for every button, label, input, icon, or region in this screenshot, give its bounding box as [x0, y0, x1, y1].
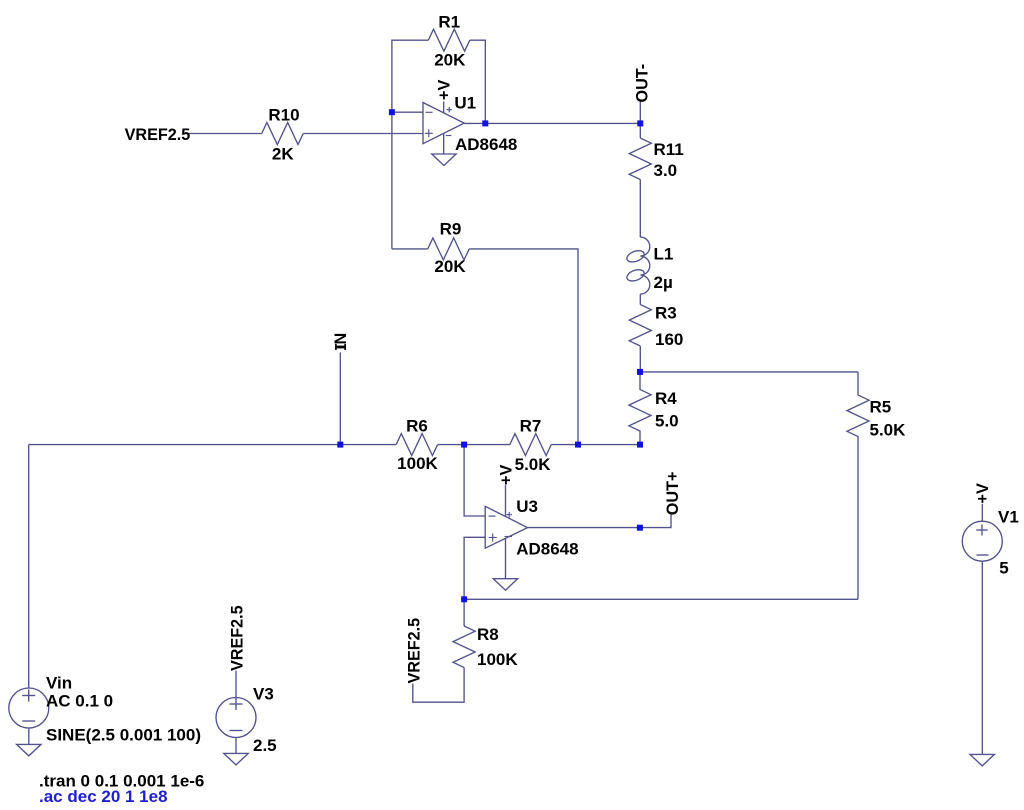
svg-text:5.0: 5.0 [655, 411, 679, 430]
svg-text:R10: R10 [268, 105, 299, 124]
svg-text:+V: +V [974, 483, 992, 503]
svg-text:R8: R8 [477, 625, 499, 644]
svg-text:OUT+: OUT+ [664, 472, 682, 516]
svg-text:2.5: 2.5 [253, 736, 277, 755]
svg-text:5.0K: 5.0K [870, 421, 907, 440]
svg-text:160: 160 [655, 330, 683, 349]
svg-text:R9: R9 [440, 220, 462, 239]
svg-text:AC 0.1 0: AC 0.1 0 [46, 692, 113, 711]
svg-text:2µ: 2µ [654, 273, 673, 292]
svg-text:N: N [332, 333, 350, 345]
svg-text:R7: R7 [520, 417, 542, 436]
svg-text:100K: 100K [477, 650, 518, 669]
svg-text:AD8648: AD8648 [455, 135, 517, 154]
svg-text:R3: R3 [655, 303, 677, 322]
svg-text:20K: 20K [434, 51, 466, 70]
svg-text:VREF2.5: VREF2.5 [229, 605, 247, 671]
svg-text:100K: 100K [397, 454, 438, 473]
svg-text:OUT-: OUT- [633, 64, 651, 103]
svg-text:U1: U1 [454, 94, 476, 113]
svg-text:20K: 20K [434, 257, 466, 276]
svg-text:R4: R4 [655, 389, 677, 408]
svg-text:3.0: 3.0 [654, 161, 678, 180]
svg-text:SINE(2.5 0.001 100): SINE(2.5 0.001 100) [46, 726, 201, 745]
svg-text:V3: V3 [253, 685, 274, 704]
svg-text:R1: R1 [438, 13, 460, 32]
svg-text:V1: V1 [998, 507, 1019, 526]
svg-text:5: 5 [999, 558, 1008, 577]
svg-text:VREF2.5: VREF2.5 [125, 126, 191, 144]
svg-text:R6: R6 [406, 417, 428, 436]
svg-text:AD8648: AD8648 [516, 539, 578, 558]
svg-text:L1: L1 [654, 245, 674, 264]
svg-text:.ac dec 20 1 1e8: .ac dec 20 1 1e8 [39, 787, 168, 806]
svg-text:VREF2.5: VREF2.5 [406, 618, 424, 684]
svg-text:+V: +V [436, 80, 454, 100]
svg-text:Vin: Vin [46, 674, 72, 693]
svg-text:2K: 2K [272, 145, 294, 164]
svg-text:5.0K: 5.0K [515, 455, 552, 474]
svg-text:R5: R5 [870, 398, 892, 417]
svg-text:R11: R11 [654, 140, 684, 159]
svg-text:U3: U3 [516, 497, 538, 516]
svg-text:+V: +V [498, 465, 516, 485]
